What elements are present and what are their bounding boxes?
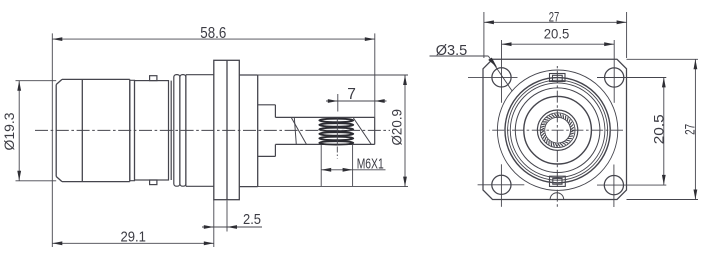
rear shell cylinder bbox=[186, 75, 214, 187]
dimension Ø19.3 bbox=[1, 81, 56, 181]
hole centerlines bbox=[468, 40, 666, 207]
dimension 27 top bbox=[484, 8, 627, 58]
leader Ø3.5 bbox=[430, 42, 513, 91]
flange bottom notch semicircle bbox=[550, 193, 564, 200]
svg-text:M6X1: M6X1 bbox=[357, 155, 384, 172]
threaded stud shaft bbox=[275, 117, 374, 144]
corner hole top-left bbox=[492, 68, 511, 87]
svg-text:58.6: 58.6 bbox=[200, 25, 226, 42]
dimension Ø20.9 bbox=[388, 75, 407, 187]
serration teeth bbox=[541, 113, 575, 147]
dimension 58.6 bbox=[52, 25, 375, 42]
rear neck bbox=[258, 105, 276, 157]
body behind flange (Ø20.9) bbox=[239, 75, 257, 187]
corner hole bottom-right bbox=[604, 176, 623, 195]
svg-text:Ø3.5: Ø3.5 bbox=[436, 42, 468, 59]
bayonet tab front 12 o'clock bbox=[550, 74, 566, 82]
wire left extension line of 58.6/29.1 bbox=[51, 33, 53, 247]
svg-text:27: 27 bbox=[682, 124, 698, 135]
bayonet stud bottom bbox=[150, 180, 157, 185]
dimension 2.5 bbox=[202, 200, 262, 247]
dimension 27 right bbox=[627, 59, 699, 199]
front view centerlines bbox=[489, 129, 625, 131]
main horizontal centerline bbox=[35, 129, 390, 131]
extension lines for Ø20.9 bbox=[258, 74, 408, 76]
mid shell section with bayonet studs bbox=[135, 76, 172, 185]
svg-text:20.5: 20.5 bbox=[544, 26, 570, 42]
svg-text:29.1: 29.1 bbox=[120, 228, 146, 245]
svg-text:Ø19.3: Ø19.3 bbox=[1, 112, 17, 150]
thread vertical centerline bbox=[336, 118, 338, 145]
svg-text:20.5: 20.5 bbox=[650, 114, 666, 144]
extension line right of 58.6 bbox=[374, 33, 376, 117]
svg-text:7: 7 bbox=[347, 86, 356, 103]
thread runout diagonals bbox=[291, 117, 371, 144]
svg-text:Ø20.9: Ø20.9 bbox=[388, 109, 404, 146]
svg-text:27: 27 bbox=[549, 8, 560, 24]
corner hole bottom-left bbox=[492, 175, 511, 194]
thin ring after nut bbox=[130, 80, 135, 180]
mounting flange (side view) bbox=[214, 60, 240, 199]
dimension 20.5 right bbox=[650, 77, 666, 184]
corner hole top-right bbox=[605, 68, 624, 87]
concentric circles bbox=[497, 70, 617, 190]
bayonet stud top bbox=[150, 76, 157, 81]
dimension M6X1 bbox=[321, 145, 385, 186]
dimension 20.5 top bbox=[502, 26, 615, 47]
flange square front view bbox=[483, 59, 627, 199]
bayonet tab front 6 o'clock bbox=[550, 176, 566, 186]
dimension 7 bbox=[326, 86, 387, 112]
serrated socket ring bbox=[537, 110, 577, 150]
dimension 29.1 bbox=[52, 228, 214, 245]
thread coil M6 bbox=[319, 119, 353, 145]
svg-text:2.5: 2.5 bbox=[243, 211, 261, 228]
gasket rings bbox=[174, 75, 186, 187]
coupling nut front face bbox=[56, 79, 130, 181]
